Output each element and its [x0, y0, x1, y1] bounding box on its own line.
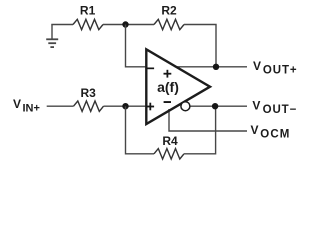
junction node VOUT- [212, 103, 218, 109]
wire R1 to R2 [103, 24, 154, 26]
svg-text:R4: R4 [162, 134, 178, 148]
svg-text:V: V [252, 98, 260, 112]
svg-text:R1: R1 [80, 3, 96, 17]
junction node at R1/R2 [122, 21, 128, 27]
wire R3 to noninverting input [104, 105, 148, 107]
svg-text:IN+: IN+ [23, 102, 40, 114]
label VOCM [251, 123, 291, 140]
wire top output [175, 66, 248, 68]
op-amp noninverting input plus marker [147, 103, 155, 111]
svg-text:OCM: OCM [260, 128, 290, 140]
op-amp inverting output minus marker [164, 101, 171, 103]
label VOUT+ [253, 59, 297, 77]
svg-text:V: V [251, 123, 259, 137]
op-amp noninverting output plus marker [164, 70, 172, 78]
wire bottom output [189, 105, 247, 107]
wire VOCM pin [169, 109, 247, 131]
label VIN+ [13, 97, 40, 114]
wire down to R4 [126, 106, 155, 154]
wire R4 to VOUT- node [184, 106, 216, 154]
svg-text:R3: R3 [81, 86, 97, 100]
wire inverting input branch [126, 25, 148, 67]
svg-text:R2: R2 [161, 3, 177, 17]
op-amp output inversion bubble [181, 102, 190, 111]
resistor R4 [154, 149, 184, 159]
svg-text:OUT−: OUT− [263, 104, 298, 116]
junction node at R3/R4 [122, 103, 128, 109]
junction node VOUT+ [213, 64, 219, 70]
svg-text:V: V [253, 59, 261, 73]
resistor R1 [73, 19, 103, 29]
svg-text:a(f): a(f) [157, 79, 179, 95]
resistor R3 [74, 101, 104, 111]
svg-text:OUT+: OUT+ [263, 65, 298, 77]
svg-text:V: V [13, 97, 21, 111]
label VOUT- [252, 98, 297, 116]
op-amp U1 triangle [146, 49, 210, 124]
wire VIN+ to R3 [47, 105, 74, 107]
wire ground to R1 [51, 24, 73, 26]
resistor R2 [154, 19, 184, 29]
wire R2 to VOUT+ node [184, 25, 216, 67]
ground [46, 25, 58, 48]
op-amp inverting input minus marker [147, 68, 154, 70]
